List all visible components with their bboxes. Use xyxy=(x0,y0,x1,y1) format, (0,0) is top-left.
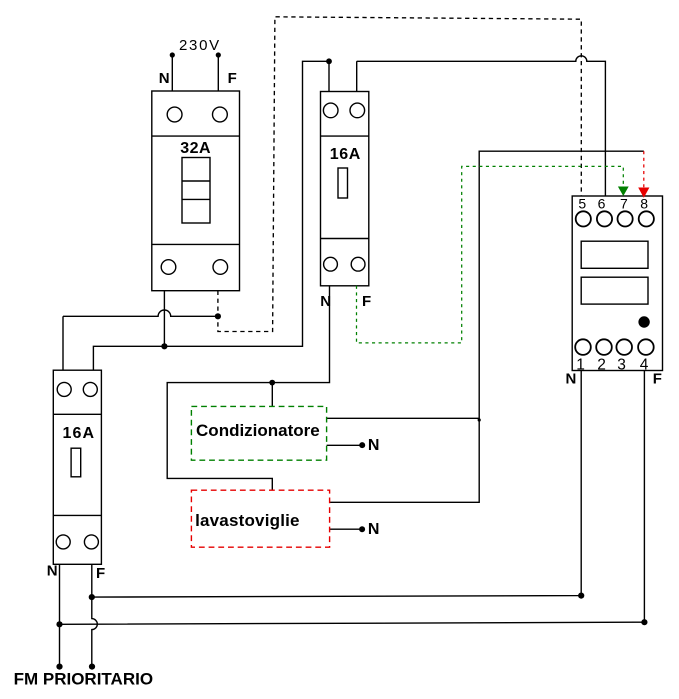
svg-text:7: 7 xyxy=(620,196,628,212)
svg-text:N: N xyxy=(320,293,331,310)
svg-text:F: F xyxy=(362,293,371,310)
svg-text:5: 5 xyxy=(578,196,586,212)
svg-text:N: N xyxy=(368,437,380,454)
svg-text:32A: 32A xyxy=(180,140,211,157)
svg-text:Condizionatore: Condizionatore xyxy=(196,421,320,440)
svg-text:6: 6 xyxy=(598,196,606,212)
svg-text:F: F xyxy=(653,371,662,388)
svg-text:3: 3 xyxy=(617,356,626,373)
svg-text:16A: 16A xyxy=(330,146,361,163)
svg-text:4: 4 xyxy=(640,356,649,373)
svg-text:230V: 230V xyxy=(179,37,221,54)
svg-text:N: N xyxy=(159,70,170,87)
svg-text:2: 2 xyxy=(597,356,606,373)
svg-text:8: 8 xyxy=(640,196,648,212)
svg-text:F: F xyxy=(96,565,105,582)
svg-text:FM PRIORITARIO: FM PRIORITARIO xyxy=(14,669,153,688)
svg-text:N: N xyxy=(565,371,576,388)
svg-text:F: F xyxy=(228,70,237,87)
svg-text:16A: 16A xyxy=(63,425,96,442)
svg-text:N: N xyxy=(47,563,58,580)
svg-text:N: N xyxy=(368,521,380,538)
svg-text:lavastoviglie: lavastoviglie xyxy=(195,511,300,530)
svg-text:1: 1 xyxy=(576,356,585,373)
